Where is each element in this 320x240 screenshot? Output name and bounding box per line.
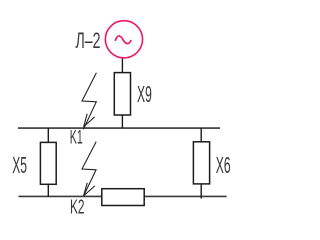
svg-text:X9: X9 [137,81,152,107]
svg-text:K1: K1 [70,128,83,149]
svg-text:X5: X5 [12,152,27,178]
svg-text:K2: K2 [70,196,85,218]
svg-text:Л–2: Л–2 [76,28,101,53]
svg-text:X6: X6 [216,152,231,178]
